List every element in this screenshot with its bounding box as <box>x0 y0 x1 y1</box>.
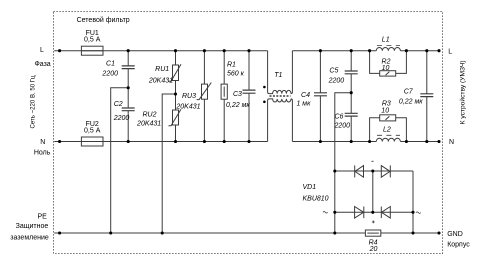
diode VD1.3 (bridge bottom-left, pointing right) <box>355 207 364 219</box>
resistor R1 <box>221 84 227 99</box>
wire R1 rail <box>223 51 225 142</box>
junction dot L at C4 <box>319 49 322 52</box>
capacitor C4 <box>314 93 327 96</box>
wire N bus right segment (L2 right to output) <box>400 141 439 143</box>
label C5 2200 <box>328 68 345 85</box>
label C4 1 мк <box>296 92 311 108</box>
wire RU1-RU2 middle rail <box>175 81 177 111</box>
svg-text:2200: 2200 <box>101 71 118 78</box>
wire RU1/RU2 midpoint jog to PE <box>162 94 175 233</box>
label RU1 20K431 <box>148 66 173 84</box>
junction dot N input terminal <box>58 140 61 143</box>
svg-text:К устройству (УМЗЧ): К устройству (УМЗЧ) <box>458 60 466 124</box>
wire R3 bypass loop around L2 <box>370 118 407 142</box>
wire C5/C6 rail <box>350 51 352 142</box>
label R4 20 <box>369 240 378 253</box>
junction dot GND at bridge right <box>411 231 414 234</box>
svg-text:N: N <box>449 139 454 146</box>
label C7 0,22 мк <box>399 89 423 106</box>
svg-text:L1: L1 <box>382 36 390 43</box>
junction dot N at L2 left <box>368 140 371 143</box>
svg-text:заземление: заземление <box>10 235 49 242</box>
capacitor C5 <box>345 71 358 74</box>
label FU1 0,5 А <box>84 30 101 44</box>
diode VD1.2 (bridge top-right, pointing right) <box>381 165 390 177</box>
dashed enclosure (mains filter module boundary) <box>54 12 443 254</box>
transformer T1 polarity dot winding 2 <box>263 101 266 104</box>
wire N bus left segment <box>54 141 267 143</box>
capacitor C3 <box>243 90 256 93</box>
wire PE/GND bus right segment (after R4) <box>381 232 439 234</box>
bridge minus mark <box>371 160 373 162</box>
label R1 560 к <box>227 62 245 78</box>
label RU2 20K431 <box>136 112 161 128</box>
transformer T1 winding 2 <box>268 99 293 142</box>
svg-text:Ноль: Ноль <box>34 150 51 157</box>
inductor L1 <box>376 48 400 51</box>
junction dot N at C4 <box>319 140 322 143</box>
svg-text:PE: PE <box>37 213 47 220</box>
svg-text:0,22 мк: 0,22 мк <box>226 102 250 109</box>
junction dot L at L1 right <box>405 49 408 52</box>
junction dot C1/C2 midpoint <box>127 86 130 89</box>
fuse FU1 <box>81 46 103 55</box>
junction dot L at C1 <box>127 49 130 52</box>
wire L bus middle segment (T1 right to L1 left) <box>292 50 376 52</box>
wire bridge right side rail <box>412 171 414 233</box>
label C3 0,22 мк <box>226 91 250 109</box>
svg-text:Корпус: Корпус <box>447 241 470 248</box>
junction dot PE at C1/C2 tap <box>109 231 112 234</box>
svg-text:C4: C4 <box>301 92 310 99</box>
wire C5/C6 midpoint jog to bridge <box>335 93 351 233</box>
svg-text:C6: C6 <box>335 114 344 121</box>
junction dot bridge plus node <box>371 211 374 214</box>
svg-text:20K431: 20K431 <box>136 121 161 128</box>
wire PE/GND bus left segment <box>54 232 365 234</box>
wire C7 rail <box>426 51 428 142</box>
svg-text:C3: C3 <box>233 91 242 98</box>
label C2 2200 <box>113 101 130 122</box>
svg-text:20K431: 20K431 <box>148 77 173 84</box>
junction dot N at R1 <box>223 140 226 143</box>
svg-text:10: 10 <box>382 65 390 72</box>
junction dot L output terminal <box>437 49 440 52</box>
bridge plus mark <box>372 221 375 224</box>
junction dot PE input terminal <box>58 231 61 234</box>
svg-text:Фаза: Фаза <box>34 61 50 68</box>
wire N bus middle segment (T1 right to L2 left) <box>292 141 376 143</box>
capacitor C6 <box>345 113 358 116</box>
junction dot N output terminal <box>437 140 440 143</box>
junction dot L at C3 <box>247 49 250 52</box>
svg-text:0,5 А: 0,5 А <box>84 37 101 44</box>
svg-text:20: 20 <box>369 246 378 253</box>
capacitor C2 <box>122 108 135 111</box>
varistor RU2 <box>169 109 182 126</box>
inductor L2 core (dashed) <box>377 134 400 136</box>
wire R2 bypass loop around L1 <box>370 51 407 74</box>
junction dot bridge bottom-left <box>333 211 336 214</box>
junction dot L at RU3 <box>203 49 206 52</box>
varistor RU3 <box>197 83 212 100</box>
wire L bus right segment (L1 right to output) <box>400 50 439 52</box>
wire RU1 top lead <box>175 51 177 65</box>
junction dot N at C6 <box>350 140 353 143</box>
svg-text:N: N <box>40 139 45 146</box>
capacitor C1 <box>122 66 135 69</box>
svg-text:T1: T1 <box>274 72 282 79</box>
svg-text:560 к: 560 к <box>227 71 245 78</box>
wire bridge center (DC short − to +) <box>372 171 374 212</box>
junction dot N at RU3 <box>203 140 206 143</box>
svg-text:1 мк: 1 мк <box>296 100 311 107</box>
junction dot L at C7 <box>425 49 428 52</box>
junction dot L at R1 <box>223 49 226 52</box>
junction dot PE at bridge left <box>333 231 336 234</box>
svg-text:L: L <box>40 47 44 54</box>
label FU2 0,5 А <box>84 121 101 135</box>
svg-text:Сетевой фильтр: Сетевой фильтр <box>77 16 130 24</box>
wire RU2 bottom lead <box>175 125 177 142</box>
junction dot N at RU2 <box>174 140 177 143</box>
junction dot N at L2 right <box>405 140 408 143</box>
resistor R3 <box>380 115 396 121</box>
inductor L1 core (dashed) <box>377 44 400 46</box>
svg-text:GND: GND <box>447 231 463 238</box>
varistor RU1 <box>169 64 182 81</box>
wire RU3 rail <box>203 51 205 142</box>
junction dot L at RU1 <box>174 49 177 52</box>
wire C4 rail <box>319 51 321 142</box>
svg-text:2200: 2200 <box>334 122 351 129</box>
transformer T1 core (dashed) <box>270 95 291 96</box>
wire C1-C2 middle rail <box>127 69 129 108</box>
wire bridge top row <box>335 170 413 172</box>
wire C1/C2 midpoint jog to PE <box>111 88 129 233</box>
junction dot L input terminal <box>58 49 61 52</box>
junction dot N at C2 <box>127 140 130 143</box>
svg-text:20K431: 20K431 <box>175 103 200 110</box>
svg-text:RU3: RU3 <box>182 93 196 100</box>
junction dot C5/C6 midpoint <box>350 91 353 94</box>
wire C2 bottom lead <box>127 111 129 142</box>
svg-text:L2: L2 <box>383 126 391 133</box>
wire L bus left segment <box>54 50 267 52</box>
fuse FU2 <box>81 137 103 146</box>
junction dot bridge top-left <box>333 169 336 172</box>
junction dot N at C7 <box>425 140 428 143</box>
resistor R4 <box>365 230 380 236</box>
junction dot bridge bottom-right <box>411 211 414 214</box>
svg-text:Сеть ~220 В, 50 Гц: Сеть ~220 В, 50 Гц <box>29 75 36 128</box>
junction dot GND output terminal <box>437 231 440 234</box>
capacitor C7 <box>420 94 433 97</box>
svg-text:RU2: RU2 <box>142 112 156 119</box>
svg-text:10: 10 <box>381 107 389 114</box>
diode VD1.4 (bridge bottom-right, pointing left) <box>381 207 390 219</box>
junction dot PE at RU tap <box>161 231 164 234</box>
label R2 10 <box>382 58 391 72</box>
junction dot bridge minus node <box>371 169 374 172</box>
label RU3 20K431 <box>175 93 200 110</box>
label C1 2200 <box>101 61 118 78</box>
bridge AC tilde mark left <box>323 212 328 214</box>
resistor R2 <box>380 71 396 76</box>
wire bridge bottom row <box>335 211 413 213</box>
junction dot L at C5 <box>350 49 353 52</box>
svg-text:C7: C7 <box>404 89 414 96</box>
label VD1 KBU810 <box>303 184 329 203</box>
diode VD1.1 (bridge top-left, pointing left) <box>355 165 364 177</box>
svg-text:2200: 2200 <box>113 115 130 122</box>
svg-text:L: L <box>448 48 452 55</box>
wire C3 rail <box>248 51 250 142</box>
junction dot N at C3 <box>247 140 250 143</box>
svg-text:0,5 А: 0,5 А <box>84 128 101 135</box>
svg-text:VD1: VD1 <box>303 184 317 191</box>
wire C1 top lead <box>127 51 129 66</box>
transformer T1 polarity dot winding 1 <box>263 86 266 89</box>
svg-text:RU1: RU1 <box>155 66 169 73</box>
svg-text:2200: 2200 <box>328 77 345 84</box>
transformer T1 common-mode choke, winding 1 <box>268 51 293 94</box>
svg-text:C1: C1 <box>106 61 115 68</box>
label C6 2200 <box>334 114 351 130</box>
junction dot RU1/RU2 midpoint <box>174 92 177 95</box>
svg-text:C5: C5 <box>329 68 338 75</box>
svg-text:C2: C2 <box>114 101 123 108</box>
svg-text:R1: R1 <box>227 62 236 69</box>
bridge AC tilde mark right <box>416 212 421 214</box>
label R3 10 <box>381 101 391 115</box>
inductor L2 <box>376 138 400 141</box>
svg-text:Защитное: Защитное <box>16 223 49 230</box>
junction dot L at L1 left <box>368 49 371 52</box>
svg-text:0,22 мк: 0,22 мк <box>399 99 423 106</box>
svg-text:KBU810: KBU810 <box>303 195 329 202</box>
